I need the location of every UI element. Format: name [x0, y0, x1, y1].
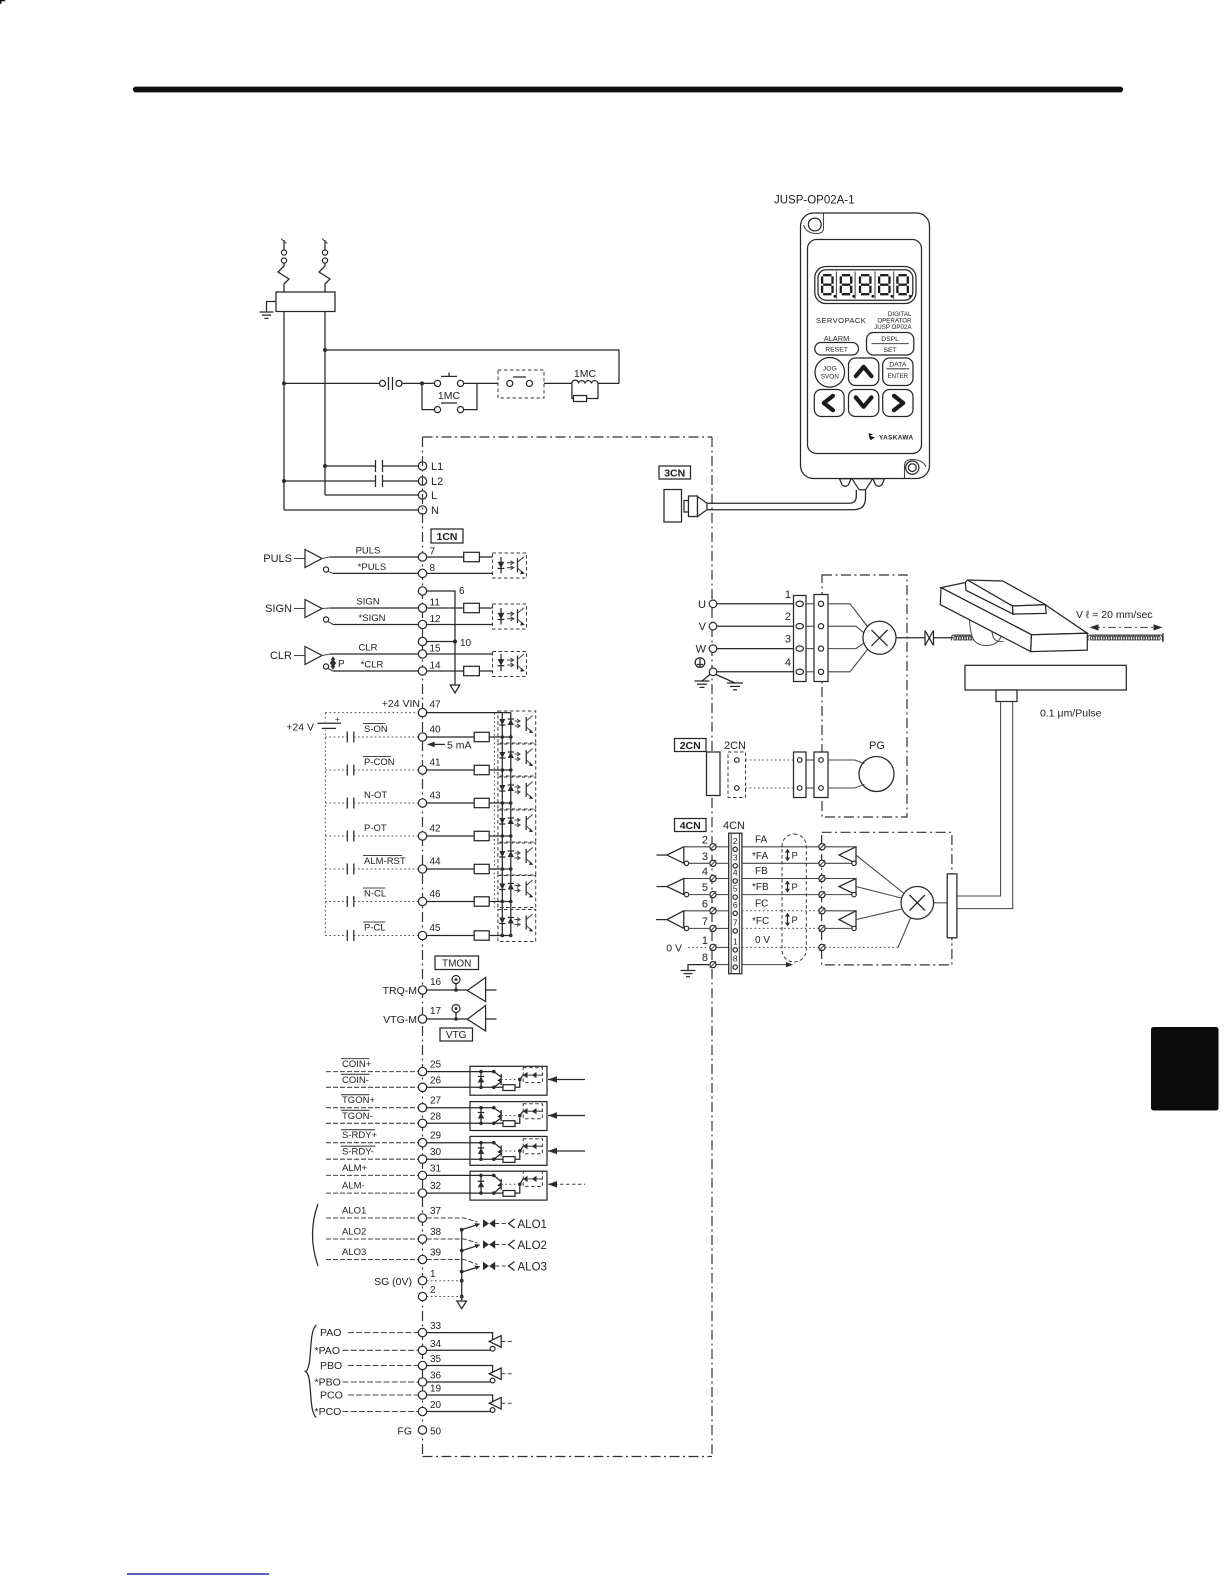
noise filter ground: [267, 302, 277, 313]
shield wire pin 8: [742, 964, 786, 966]
encoder driver FB: [839, 879, 856, 895]
7-segment digit 2: [841, 275, 851, 294]
motor shaft: [896, 637, 925, 639]
op-amp TRQ-M: [467, 978, 485, 1002]
wire control circuit top: [325, 350, 619, 383]
input contact P-OT: [325, 835, 347, 837]
encoder pin 7: [819, 925, 825, 931]
transistor ALO2: [483, 1240, 489, 1249]
wire filter right output down: [324, 312, 326, 496]
optocoupler S-ON: [498, 711, 536, 743]
display bezel: [815, 267, 916, 304]
svg-text:ALO1: ALO1: [518, 1219, 547, 1231]
encoder pin 2: [819, 844, 825, 850]
pin 35: [418, 1361, 426, 1369]
svg-text:ALARM: ALARM: [824, 334, 849, 343]
encoder driver FA: [839, 847, 856, 864]
input contact P-CON: [325, 769, 347, 771]
motor fan-in wires: [828, 604, 868, 627]
wire surge to coil: [544, 382, 572, 384]
svg-text:ALM-RST: ALM-RST: [364, 856, 406, 867]
svg-text:V: V: [699, 621, 707, 633]
receiver FB: [667, 879, 684, 895]
PG encoder circle: [859, 757, 894, 792]
button right: [883, 390, 913, 417]
svg-text:+: +: [335, 715, 340, 724]
wire PULS: [330, 556, 418, 558]
svg-text:17: 17: [430, 1006, 442, 1017]
output transistor S-RDY: [492, 1141, 496, 1145]
svg-text:4: 4: [785, 657, 791, 669]
1CN connector label: [431, 529, 463, 543]
feedback diode box S-RDY: [523, 1139, 542, 1154]
optocoupler PULS: [493, 553, 527, 578]
svg-text:ALO2: ALO2: [342, 1227, 366, 1238]
bracket PAO group: [306, 1325, 317, 1418]
wire *SIGN: [333, 624, 418, 626]
svg-text:6: 6: [733, 900, 738, 910]
button down: [849, 390, 879, 417]
signal *FC: [742, 927, 822, 929]
servopack boundary top: [423, 436, 713, 438]
svg-text:19: 19: [430, 1384, 442, 1395]
svg-text:+24 V: +24 V: [286, 722, 314, 734]
svg-text:0.1 μm/Pulse: 0.1 μm/Pulse: [1040, 708, 1102, 720]
svg-text:ALO2: ALO2: [518, 1240, 547, 1252]
wire to 1MC contacts: [402, 382, 435, 384]
output signal TGON-: [326, 1122, 418, 1124]
pin 12: [418, 620, 426, 628]
machine table big slab: [941, 583, 1087, 635]
svg-text:5: 5: [733, 884, 738, 894]
coil parallel resistor: [572, 383, 598, 398]
photocoupler output box TGON: [470, 1102, 547, 1131]
position feedback link lines: [957, 702, 1001, 897]
encoder dashed box: [822, 832, 952, 965]
svg-text:S-RDY+: S-RDY+: [342, 1130, 378, 1141]
optocoupler P-OT: [498, 810, 536, 842]
operator screw ear top-left: [804, 214, 824, 234]
footer blue rule: [127, 1573, 269, 1575]
svg-text:5: 5: [702, 882, 708, 894]
terminal PE: [709, 668, 717, 676]
svg-text:40: 40: [430, 725, 442, 736]
emitter resistor ALM: [503, 1191, 515, 1197]
svg-text:N-OT: N-OT: [364, 790, 387, 801]
svg-text:SG (0V): SG (0V): [374, 1276, 412, 1288]
sensor pedestal: [996, 690, 1017, 702]
button DSPL SET: [867, 333, 914, 356]
svg-text:*CLR: *CLR: [361, 660, 384, 671]
encoder pin 1: [819, 944, 825, 950]
pushbutton switch: [380, 380, 386, 386]
shield drain wire + arrow: [454, 637, 456, 685]
surge absorber dashed box: [498, 370, 544, 398]
svg-text:S-ON: S-ON: [364, 724, 388, 735]
wire coil to top: [598, 382, 619, 384]
svg-text:CLR: CLR: [358, 643, 377, 654]
PE ground symbol: [695, 658, 705, 668]
encoder scale bar: [947, 874, 957, 938]
bus ground arrow: [457, 1301, 467, 1309]
output signal S-RDY+: [326, 1142, 418, 1144]
svg-text:*PAO: *PAO: [315, 1345, 340, 1357]
7-segment digit 4: [879, 275, 889, 294]
wire L2 with capacitor: [284, 480, 376, 482]
4CN label box: [675, 819, 707, 832]
external sense arrow TGON: [548, 1115, 585, 1117]
signal 0 V: [742, 946, 822, 948]
input contact ALM-RST: [325, 868, 347, 870]
svg-text:2: 2: [733, 836, 738, 846]
alarm code signal ALO2: [326, 1238, 418, 1240]
opto bank dotted border: [493, 713, 495, 910]
bracket ALO group: [313, 1204, 319, 1266]
pin 33: [418, 1328, 426, 1336]
servopack boundary bottom: [423, 1456, 713, 1458]
input contact N-CL: [325, 901, 347, 903]
svg-text:15: 15: [430, 644, 442, 655]
2CN label box: [675, 739, 707, 752]
svg-text:PG: PG: [869, 740, 885, 752]
pin 37: [418, 1214, 426, 1222]
optocoupler N-CL: [498, 876, 536, 908]
encoder disc sensor: [901, 887, 934, 920]
motor unit dashed box: [822, 575, 907, 817]
svg-text:*PULS: *PULS: [358, 562, 387, 573]
svg-text:L1: L1: [431, 461, 443, 473]
shaft coupling: [924, 631, 926, 646]
line driver CLR: [305, 647, 322, 665]
black edge tab: [1151, 1027, 1219, 1111]
transistor ALO3: [483, 1262, 489, 1271]
signal FB: [742, 878, 822, 880]
pin 43: [418, 799, 426, 807]
svg-text:2CN: 2CN: [680, 740, 701, 752]
svg-text:1: 1: [785, 589, 791, 601]
svg-text:32: 32: [430, 1181, 442, 1192]
svg-text:TGON-: TGON-: [342, 1111, 373, 1122]
svg-text:S-RDY-: S-RDY-: [342, 1147, 374, 1158]
wire SIGN: [330, 607, 418, 609]
input contact N-OT: [325, 802, 347, 804]
pin8 earth: [688, 965, 709, 971]
svg-text:P: P: [792, 882, 798, 893]
ball screw left section: [934, 637, 954, 639]
svg-text:30: 30: [430, 1147, 442, 1158]
pin 8: [418, 569, 426, 577]
wire filter left output down: [283, 312, 285, 511]
operator cable: [707, 490, 856, 504]
test point 17: [452, 1005, 460, 1013]
svg-text:FA: FA: [755, 834, 768, 845]
output signal ALM+: [326, 1174, 418, 1176]
receiver FC: [667, 911, 684, 929]
relay coil 1MC: [572, 380, 598, 383]
svg-text:ALM-: ALM-: [342, 1181, 365, 1192]
shield pin 10 junction: [418, 637, 426, 645]
svg-text:V ℓ = 20 mm/sec: V ℓ = 20 mm/sec: [1076, 609, 1153, 621]
svg-text:SIGN: SIGN: [265, 603, 292, 615]
pin 36: [418, 1378, 426, 1386]
svg-text:25: 25: [430, 1060, 442, 1071]
svg-text:4: 4: [733, 868, 738, 878]
svg-text:ALM+: ALM+: [342, 1163, 368, 1174]
svg-text:*PCO: *PCO: [315, 1406, 342, 1418]
operator inner panel: [808, 240, 922, 454]
svg-text:37: 37: [430, 1206, 442, 1217]
emitter resistor COIN: [503, 1085, 515, 1091]
pin 42: [418, 832, 426, 840]
YASKAWA logo: [869, 433, 876, 440]
svg-text:26: 26: [430, 1075, 442, 1086]
signal *FB: [742, 894, 822, 896]
protection diode ALM: [480, 1175, 482, 1193]
ALO common bus: [461, 1230, 463, 1301]
svg-text:5 mA: 5 mA: [447, 739, 472, 751]
svg-text:VTG: VTG: [446, 1030, 467, 1041]
svg-text:11: 11: [430, 598, 441, 609]
svg-text:36: 36: [430, 1371, 442, 1382]
svg-text:W: W: [696, 644, 707, 656]
svg-text:N-CL: N-CL: [364, 889, 386, 900]
output transistor TGON: [492, 1106, 496, 1110]
PE earth left: [702, 674, 711, 681]
encoder pin 5: [819, 892, 825, 898]
svg-text:3CN: 3CN: [664, 467, 685, 479]
2CN link wires: [746, 759, 794, 761]
output signal ALM-: [326, 1192, 418, 1194]
svg-text:P-OT: P-OT: [364, 823, 387, 834]
svg-text:1CN: 1CN: [436, 531, 457, 543]
7-segment digit 3: [860, 275, 870, 294]
wire control circuit main: [284, 382, 380, 384]
svg-text:P-CL: P-CL: [364, 923, 386, 934]
pin 11: [418, 604, 426, 612]
resistor P-CL: [427, 935, 475, 937]
resistor ALM-RST: [427, 868, 475, 870]
signal FA: [742, 846, 822, 848]
contact 1MC a: [434, 380, 440, 386]
output signal TGON+: [326, 1107, 418, 1109]
output transistor COIN: [492, 1070, 496, 1074]
svg-text:31: 31: [430, 1163, 442, 1174]
button up: [849, 358, 879, 386]
terminal strip left (servopack output): [794, 596, 807, 682]
VTG label box: [440, 1028, 473, 1041]
svg-text:DATA: DATA: [889, 362, 907, 369]
pin 7: [418, 553, 426, 561]
resistor on pin 14 wire: [427, 670, 464, 672]
svg-text:PBO: PBO: [320, 1360, 342, 1372]
PE earth right: [716, 675, 735, 684]
optocoupler CLR: [493, 652, 527, 677]
svg-text:*FC: *FC: [752, 916, 769, 927]
operator screw ear bottom-right: [905, 460, 927, 479]
twisted pair P mark FB: [787, 882, 789, 892]
svg-text:42: 42: [430, 824, 442, 835]
svg-text:P: P: [792, 851, 798, 862]
svg-text:14: 14: [430, 661, 442, 672]
svg-text:4CN: 4CN: [680, 820, 701, 832]
pin 31: [418, 1171, 426, 1179]
servomotor: [863, 621, 896, 654]
photocoupler output box ALM: [470, 1171, 547, 1200]
op-amp VTG-M: [467, 1006, 485, 1032]
encoder 0V wire: [825, 946, 898, 948]
svg-text:3: 3: [785, 634, 791, 646]
feedback diode box ALM: [523, 1171, 542, 1186]
input contact P-CL: [325, 935, 347, 937]
pin 19: [418, 1391, 426, 1399]
pin 34: [418, 1346, 426, 1354]
2CN cable strip: [728, 752, 746, 798]
2CN connector body: [707, 752, 721, 796]
terminal strip right (motor): [814, 595, 828, 682]
svg-text:SERVOPACK: SERVOPACK: [816, 316, 866, 325]
3CN plug: [684, 501, 689, 513]
pin 28: [418, 1119, 426, 1127]
resistor N-CL: [427, 901, 475, 903]
svg-text:46: 46: [430, 889, 442, 900]
svg-text:ALO3: ALO3: [342, 1247, 366, 1258]
machine base: [965, 665, 1126, 690]
optocoupler P-CL: [498, 910, 536, 942]
svg-text:16: 16: [430, 977, 442, 988]
4CN connector block: [729, 833, 742, 974]
wire contacts to surge box: [464, 382, 499, 384]
wire L: [325, 494, 418, 496]
pin 30: [418, 1155, 426, 1163]
svg-text:6: 6: [702, 898, 708, 910]
contact 1MC b (self hold): [422, 383, 435, 409]
optocoupler ALM-RST: [498, 843, 536, 875]
external sense arrow S-RDY: [548, 1150, 585, 1152]
svg-text:2: 2: [785, 611, 791, 623]
svg-text:35: 35: [430, 1354, 442, 1365]
wire L1 with capacitor: [325, 465, 376, 467]
svg-text:L2: L2: [431, 476, 443, 488]
svg-text:*SIGN: *SIGN: [359, 613, 386, 624]
machine table top block: [968, 580, 1046, 606]
operator body: [801, 213, 930, 479]
ball screw right section: [1088, 635, 1163, 640]
svg-text:8: 8: [430, 563, 436, 574]
5 mA annotation: [427, 742, 435, 748]
encoder pin 4: [819, 875, 825, 881]
svg-text:N: N: [431, 505, 439, 517]
wire *CLR: [333, 670, 418, 672]
svg-text:47: 47: [430, 700, 442, 711]
pin 27: [418, 1104, 426, 1112]
resistor on pin 11 wire: [427, 607, 464, 609]
svg-text:10: 10: [460, 638, 472, 649]
protection diode COIN: [480, 1072, 482, 1088]
signal *FA: [742, 862, 822, 864]
line driver PULS: [305, 550, 322, 568]
pin 38: [418, 1235, 426, 1243]
pin 44: [418, 865, 426, 873]
operator bottom feet: [840, 479, 852, 487]
PG strip right: [814, 752, 828, 798]
svg-text:34: 34: [430, 1339, 442, 1350]
svg-text:45: 45: [430, 923, 442, 934]
wire 47 to opto rails: [427, 712, 511, 714]
svg-text:1: 1: [733, 936, 738, 946]
svg-text:PCO: PCO: [320, 1390, 343, 1402]
strip link wires: [806, 603, 814, 605]
svg-text:COIN-: COIN-: [342, 1075, 369, 1086]
optocoupler N-OT: [498, 777, 536, 809]
svg-text:FG: FG: [397, 1426, 412, 1438]
button DATA ENTER: [883, 358, 913, 386]
receiver FA: [667, 847, 684, 864]
pin 14: [418, 667, 426, 675]
protection diode S-RDY: [480, 1143, 482, 1160]
V speed arrow: [1092, 626, 1160, 628]
svg-text:8: 8: [733, 954, 738, 964]
pin 46: [418, 897, 426, 905]
svg-text:DSPL: DSPL: [881, 336, 899, 343]
pin 45: [418, 931, 426, 939]
svg-text:1: 1: [430, 1269, 436, 1280]
svg-text:TRQ-M: TRQ-M: [383, 985, 417, 997]
svg-text:PULS: PULS: [356, 546, 381, 557]
pin 26: [418, 1083, 426, 1091]
top rule bar: [133, 87, 1123, 93]
resistor S-ON: [427, 736, 475, 738]
terminal N: [418, 506, 426, 514]
line driver SIGN: [305, 600, 322, 618]
svg-text:2: 2: [702, 834, 708, 846]
pin 47: [325, 712, 418, 714]
optocoupler SIGN: [493, 604, 527, 629]
servopack boundary right: [711, 437, 713, 1457]
svg-text:P: P: [338, 659, 345, 670]
twisted pair P mark FA: [787, 850, 789, 861]
svg-text:PAO: PAO: [320, 1327, 341, 1339]
svg-text:1MC: 1MC: [574, 368, 597, 380]
external 24V dotted rail: [324, 713, 326, 936]
svg-text:COIN+: COIN+: [342, 1059, 372, 1070]
encoder driver FC: [839, 911, 856, 929]
svg-text:1: 1: [702, 935, 708, 947]
emitter resistor TGON: [503, 1121, 515, 1127]
svg-text:SET: SET: [883, 347, 896, 354]
pin 25: [418, 1067, 426, 1075]
svg-text:P-CON: P-CON: [364, 757, 395, 768]
button JOG SVON: [815, 358, 845, 388]
photocoupler output box COIN: [470, 1066, 547, 1095]
svg-text:7: 7: [702, 916, 708, 928]
output signal S-RDY-: [326, 1158, 418, 1160]
wire N: [284, 509, 418, 511]
twisted pair P mark FC: [787, 914, 789, 926]
svg-text:2CN: 2CN: [724, 740, 746, 752]
3CN connector body: [664, 490, 682, 523]
terminal L2: [418, 477, 426, 485]
svg-text:7: 7: [733, 917, 738, 927]
svg-text:*PBO: *PBO: [315, 1377, 341, 1389]
svg-text:YASKAWA: YASKAWA: [879, 435, 914, 442]
svg-text:38: 38: [430, 1227, 442, 1238]
alarm code signal ALO3: [326, 1259, 418, 1261]
svg-text:*FB: *FB: [752, 882, 769, 893]
protection diode TGON: [480, 1108, 482, 1124]
svg-text:RESET: RESET: [825, 347, 848, 354]
svg-text:2: 2: [430, 1285, 436, 1296]
line driver PAO pair: [427, 1333, 493, 1340]
